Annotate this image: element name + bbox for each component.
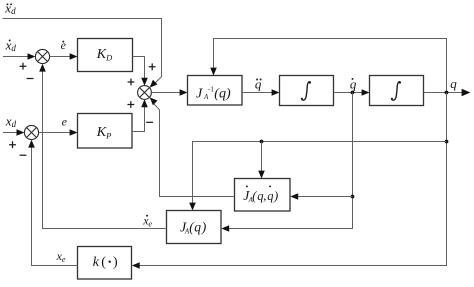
sign minus S1: [27, 78, 34, 80]
node q junction: [445, 91, 449, 95]
block KD: [78, 39, 133, 72]
svg-text:A: A: [203, 93, 209, 101]
summing junction S2: [24, 125, 38, 139]
svg-text:e: e: [61, 38, 67, 52]
sign plus S1: [20, 63, 27, 70]
block JAinv: [188, 76, 243, 106]
block k: [78, 247, 132, 280]
svg-text:): ): [273, 189, 278, 203]
wire KD output to S3 top: [133, 57, 145, 81]
wire dot_xd input: [3, 56, 30, 58]
svg-text:q: q: [194, 220, 201, 235]
svg-text:k: k: [93, 255, 100, 270]
sign plus S3 left-bottom: [127, 101, 134, 108]
wire dq feedback into JA right: [226, 93, 352, 229]
wire q feedback down into k: [137, 93, 447, 266]
wire KP output to S3 bottom: [132, 104, 145, 131]
block JdotA: [235, 179, 291, 212]
svg-text:(: (: [101, 255, 106, 270]
wire k output xe feedback to S2: [32, 145, 78, 266]
wire JAinv output ddq: [242, 92, 274, 94]
wire JA output dot_xe feedback to S1: [43, 69, 167, 229]
svg-text:q: q: [450, 76, 457, 91]
wire q feedback up/top into JAinv: [214, 39, 447, 93]
wire branch into JdotA right: [295, 196, 352, 198]
sign minus S2: [20, 154, 27, 156]
svg-text:): ): [113, 255, 118, 270]
block KP: [78, 114, 133, 149]
summing junction S3 (central): [138, 86, 152, 100]
wire int1 output dq: [334, 92, 365, 94]
node q junction y141: [445, 140, 449, 144]
sign plus S3 left-top: [128, 79, 135, 86]
wire S1 to KD: [50, 56, 73, 58]
svg-text:,: ,: [263, 189, 266, 203]
wire branch into JdotA top: [261, 142, 263, 174]
sign plus S3 top-right: [149, 63, 156, 70]
node junction above JdotA: [260, 140, 264, 144]
block integrator 1: [280, 76, 334, 106]
svg-text:q: q: [267, 189, 273, 203]
wire int2 output q: [424, 92, 466, 94]
wire q line y141 into JA top: [193, 142, 447, 206]
wire S2 to KP: [39, 132, 73, 134]
wire ddot_xd feedforward line into S3: [3, 19, 162, 86]
wire JdotA output to S3 minus input: [153, 103, 234, 197]
wire xd input: [3, 132, 19, 134]
node dq junction y196.5: [351, 195, 355, 199]
sign plus S2: [9, 141, 16, 148]
sign minus S3 bottom-right: [146, 121, 153, 123]
svg-text:J: J: [196, 86, 203, 101]
svg-text:e: e: [62, 114, 68, 128]
svg-text:(q): (q): [214, 86, 231, 101]
summing junction S1: [35, 49, 49, 63]
block integrator 2: [370, 76, 424, 106]
arrowhead ddot_xd into S3 (diagonal): [150, 80, 158, 88]
node dq junction: [351, 91, 355, 95]
svg-text:): ): [201, 220, 207, 235]
block JA: [167, 211, 222, 244]
wire S3 output to JAinv: [151, 92, 182, 94]
